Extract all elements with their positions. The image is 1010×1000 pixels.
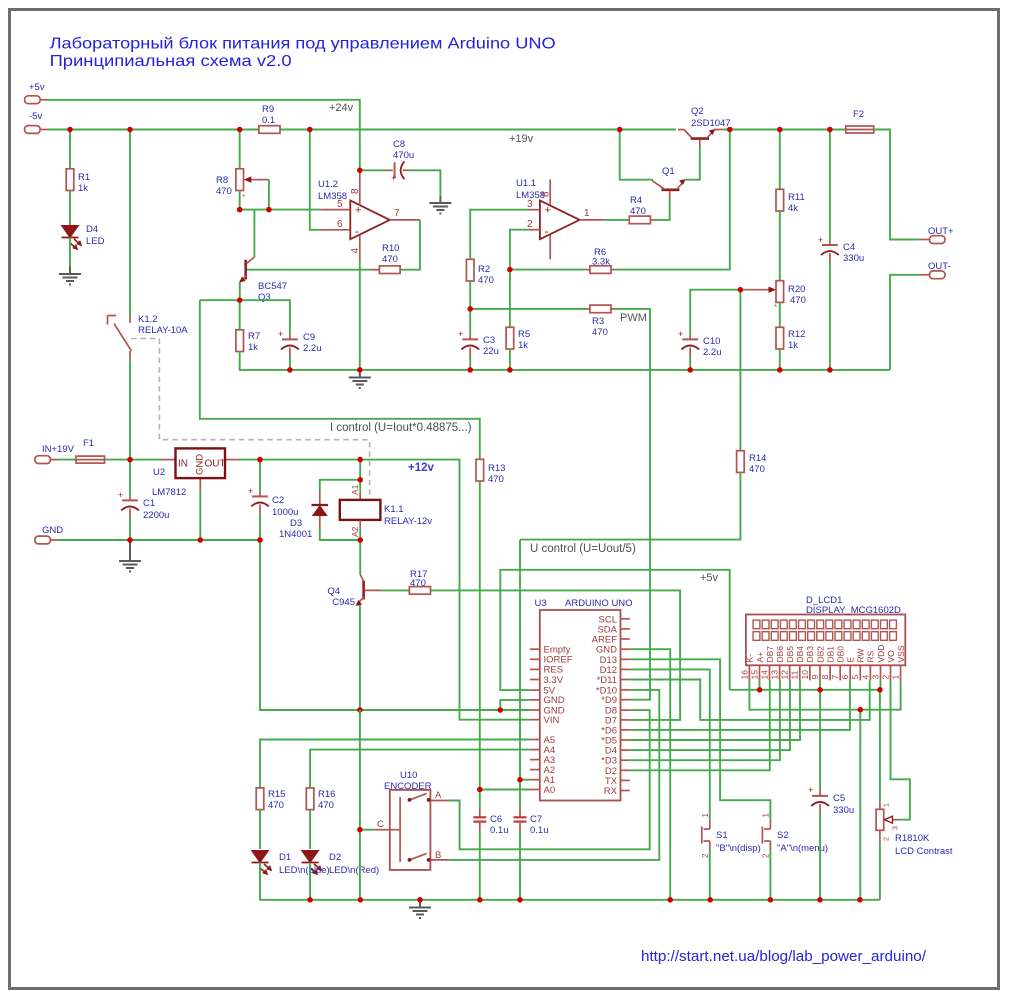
wire R1 top xyxy=(69,130,71,169)
svg-text:1: 1 xyxy=(701,813,710,818)
wire R20 wiper row to C10 xyxy=(690,290,745,335)
ground (C1) xyxy=(119,540,141,572)
wire row y309 to R3 xyxy=(470,308,586,310)
wire R11 to R20 xyxy=(779,211,781,281)
resistor R15 xyxy=(256,788,285,811)
wire GND1 jog xyxy=(500,700,530,710)
svg-text:LED\n(blue): LED\n(blue) xyxy=(279,865,330,876)
capacitor C1 xyxy=(118,460,169,521)
resistor R16 xyxy=(306,788,335,811)
svg-text:7: 7 xyxy=(830,675,840,680)
wire R8 wiper down xyxy=(268,180,270,210)
svg-text:2: 2 xyxy=(762,853,771,858)
svg-text:R10: R10 xyxy=(382,243,399,254)
wire C9 bottom xyxy=(289,357,291,370)
LED D4 xyxy=(62,224,105,249)
svg-text:+: + xyxy=(678,329,683,339)
wire Q4 base to R17 xyxy=(381,589,409,591)
wire D4 to LCD DB5 xyxy=(630,680,790,750)
svg-text:2.2u: 2.2u xyxy=(703,347,722,358)
svg-text:*: * xyxy=(774,303,777,312)
pin labels arduino left xyxy=(544,645,573,796)
wire Q3 emitter down xyxy=(239,283,241,301)
svg-text:R20: R20 xyxy=(788,284,805,295)
svg-text:470: 470 xyxy=(488,474,504,485)
svg-text:8: 8 xyxy=(820,675,830,680)
wire F2 to OUT+ xyxy=(874,130,919,240)
svg-text:470: 470 xyxy=(592,327,608,338)
wire S2 bottom xyxy=(769,851,771,900)
wire VDD column to R18 top xyxy=(879,690,881,801)
svg-text:LM358: LM358 xyxy=(318,191,347,202)
svg-text:3.3V: 3.3V xyxy=(544,675,564,686)
svg-text:6: 6 xyxy=(840,675,850,680)
wire C4 top xyxy=(829,130,831,243)
svg-text:U1.2: U1.2 xyxy=(318,179,338,190)
wire D4 to ground xyxy=(69,238,71,268)
svg-text:0.1u: 0.1u xyxy=(530,825,549,836)
svg-text:1000u: 1000u xyxy=(272,507,298,518)
wire 5V net xyxy=(500,570,729,690)
svg-text:F2: F2 xyxy=(853,109,864,120)
svg-text:R11: R11 xyxy=(788,192,805,203)
wire R14 bottom to U control row xyxy=(520,472,740,539)
svg-text:12: 12 xyxy=(780,670,790,680)
svg-text:ENCODER: ENCODER xyxy=(384,781,432,792)
wire D11 to LCD RS xyxy=(630,680,870,720)
svg-text:C: C xyxy=(377,819,384,830)
svg-text:2: 2 xyxy=(880,675,890,680)
wire R13 down to A0 then C6 xyxy=(479,481,481,808)
terminal OUT- xyxy=(919,261,951,279)
svg-text:PWM: PWM xyxy=(620,312,647,324)
svg-text:A1: A1 xyxy=(350,484,360,495)
wire R8 top xyxy=(239,130,241,169)
wire node row to opamp pin5 xyxy=(240,209,321,211)
svg-text:1N4001: 1N4001 xyxy=(279,529,312,540)
switch K1.2 contact xyxy=(108,314,189,359)
svg-text:0.1u: 0.1u xyxy=(490,825,509,836)
svg-text:+: + xyxy=(278,329,283,339)
junction dots bottom section xyxy=(307,687,882,903)
svg-text:C10: C10 xyxy=(703,336,720,347)
terminal GND xyxy=(35,525,63,544)
svg-text:A: A xyxy=(435,790,442,801)
wire R16 to D2 xyxy=(309,810,311,849)
wire R2 top to opamp U1.1 pin3 xyxy=(470,210,528,260)
svg-text:+: + xyxy=(355,205,361,217)
wire C8 left xyxy=(360,169,387,171)
svg-text:9: 9 xyxy=(810,675,820,680)
svg-text:DB2: DB2 xyxy=(815,646,825,663)
svg-text:1k: 1k xyxy=(78,183,88,194)
svg-text:K-: K- xyxy=(745,654,755,663)
svg-text:GND: GND xyxy=(42,525,63,536)
svg-text:-: - xyxy=(355,224,359,238)
svg-text:VDD: VDD xyxy=(876,645,886,663)
wire K1.2 bottom to +19v input rail xyxy=(129,359,131,460)
svg-text:IN+19V: IN+19V xyxy=(42,444,75,455)
svg-text:*D11: *D11 xyxy=(597,675,617,686)
svg-text:K1.1: K1.1 xyxy=(384,504,404,515)
capacitor C8 xyxy=(387,139,414,183)
svg-text:U10: U10 xyxy=(400,770,417,781)
svg-text:1k: 1k xyxy=(788,340,798,351)
regulator U2 LM7812 xyxy=(152,448,240,498)
wire VDD pin3 stub xyxy=(880,680,882,689)
resistor R13 xyxy=(476,459,505,485)
svg-text:4: 4 xyxy=(860,675,870,680)
svg-text:330u: 330u xyxy=(833,805,854,816)
wire D2 to LCD DB7 xyxy=(630,680,770,770)
capacitor C9 xyxy=(278,329,322,357)
wire R15 to D1 xyxy=(259,810,261,849)
wire D1 to rail xyxy=(260,863,880,900)
svg-text:F1: F1 xyxy=(83,438,94,449)
wire I-control vertical xyxy=(200,300,480,459)
svg-text:ARDUINO UNO: ARDUINO UNO xyxy=(565,598,633,609)
svg-text:6: 6 xyxy=(337,219,343,230)
svg-text:+: + xyxy=(458,329,463,339)
svg-text:Q3: Q3 xyxy=(258,292,271,303)
svg-text:C945: C945 xyxy=(332,597,355,608)
wire R5 bottom xyxy=(509,349,511,370)
svg-text:4: 4 xyxy=(350,248,361,254)
wire R7 bottom to gnd rail xyxy=(240,352,290,370)
wire VO to wiper jog xyxy=(891,680,910,819)
svg-text:2200u: 2200u xyxy=(143,510,169,521)
transistor Q2 2SD1047 xyxy=(678,106,731,147)
wire dashed mechanical link K1.2 to K1.1 xyxy=(131,339,370,499)
pin leads arduino left xyxy=(530,649,540,789)
resistor R14 xyxy=(737,451,767,475)
svg-text:DB3: DB3 xyxy=(805,646,815,663)
wire R4 right to Q1 base xyxy=(655,198,670,220)
resistor R7 xyxy=(236,330,260,353)
svg-text:2.2u: 2.2u xyxy=(303,343,322,354)
terminal OUT+ xyxy=(919,226,954,244)
terminal IN+19V xyxy=(35,444,75,464)
svg-text:U control (U=Uout/5): U control (U=Uout/5) xyxy=(530,543,636,555)
wire arduino right GND to bottom rail xyxy=(630,649,670,900)
svg-text:1: 1 xyxy=(584,208,590,219)
wire Q1 collector to rail xyxy=(620,130,653,180)
ground (D4) xyxy=(59,267,81,285)
wire LCD gnd drop RW xyxy=(859,710,861,900)
wire D12 to S1 xyxy=(630,669,710,819)
svg-text:Принципиальная схема v2.0: Принципиальная схема v2.0 xyxy=(50,53,292,70)
wire U1.2 feedback pin7 to R10 xyxy=(400,220,420,270)
svg-text:DB6: DB6 xyxy=(775,646,785,663)
wire D6 to LCD E xyxy=(630,680,850,730)
svg-text:DISPLAY_MCG1602D: DISPLAY_MCG1602D xyxy=(806,605,901,616)
encoder U10 xyxy=(374,770,449,870)
wire D10 to encoder B xyxy=(449,690,659,860)
svg-text:RELAY-10A: RELAY-10A xyxy=(138,325,188,336)
diode D3 1N4001 xyxy=(279,480,360,540)
svg-text:C3: C3 xyxy=(483,335,495,346)
svg-text:OUT: OUT xyxy=(205,459,226,470)
svg-text:+19v: +19v xyxy=(509,133,534,145)
wire R11 top xyxy=(779,130,781,190)
ic U3 ARDUINO UNO box xyxy=(535,598,633,801)
svg-text:470: 470 xyxy=(410,578,426,589)
svg-text:LED\n(Red): LED\n(Red) xyxy=(329,865,379,876)
junction dots top section xyxy=(67,127,833,373)
potentiometer R20 xyxy=(745,281,806,312)
svg-text:+: + xyxy=(818,235,823,245)
LED D1 xyxy=(252,851,272,875)
svg-text:*D9: *D9 xyxy=(601,695,617,706)
LED D2 xyxy=(302,851,321,875)
svg-text:Q4: Q4 xyxy=(327,586,340,597)
wire K1.1 A2 to Q4 collector xyxy=(359,540,361,575)
relay coil K1.1 xyxy=(340,460,433,540)
wire U2 OUT +12v rail xyxy=(240,460,530,720)
terminal +5v xyxy=(25,82,48,104)
wire Q1 emitter up to Q2 base xyxy=(685,147,700,180)
svg-text:*: * xyxy=(242,193,245,202)
svg-text:R8: R8 xyxy=(216,175,228,186)
svg-text:U2: U2 xyxy=(153,467,165,478)
svg-text:DB4: DB4 xyxy=(795,646,805,663)
wire row y300 xyxy=(200,300,290,335)
wire D2 to rail xyxy=(309,863,311,900)
svg-text:DB0: DB0 xyxy=(836,646,846,663)
svg-text:C4: C4 xyxy=(843,242,855,253)
svg-text:5: 5 xyxy=(850,675,860,680)
svg-text:330u: 330u xyxy=(843,253,864,264)
potentiometer R8 xyxy=(216,169,269,202)
ground (C8) xyxy=(429,196,451,214)
wire R17 right to D7 loop xyxy=(431,590,681,720)
svg-text:3.3k: 3.3k xyxy=(592,257,610,268)
wire R6 right up to rail xyxy=(615,130,730,270)
svg-text:R14: R14 xyxy=(749,453,766,464)
capacitor C2 xyxy=(248,460,298,518)
wire R7 top xyxy=(239,300,241,330)
svg-text:2SD1047: 2SD1047 xyxy=(691,118,731,129)
svg-text:C5: C5 xyxy=(833,793,845,804)
wire PWM loop R3 to D9 xyxy=(615,309,650,700)
svg-text:IN: IN xyxy=(178,459,188,470)
potentiometer R18 xyxy=(876,801,953,858)
wire C5 bottom xyxy=(819,812,821,900)
svg-text:VSS: VSS xyxy=(896,645,906,662)
capacitor C5 xyxy=(808,785,854,816)
resistor R6 xyxy=(586,247,615,273)
display pin leads xyxy=(749,665,900,680)
svg-text:11: 11 xyxy=(790,670,800,679)
svg-text:R9: R9 xyxy=(262,104,274,115)
resistor R3 xyxy=(586,305,615,338)
wire U2 gnd pin to gnd row xyxy=(199,490,201,540)
resistor R17 xyxy=(409,569,430,594)
svg-text:10: 10 xyxy=(800,670,810,680)
wire Q4 emitter down xyxy=(359,605,361,710)
svg-text:470: 470 xyxy=(630,206,646,217)
wire C7 bottom xyxy=(519,831,521,900)
svg-text:+: + xyxy=(248,486,253,496)
wire R1 to D4 xyxy=(69,191,71,225)
wire U1.1 pin2 loop xyxy=(510,230,529,270)
wire opamp U1.2 pin6 feed xyxy=(310,130,320,230)
svg-text:+5v: +5v xyxy=(29,82,45,93)
svg-text:+5v: +5v xyxy=(700,572,719,584)
svg-text:S1: S1 xyxy=(716,830,728,841)
switch S2 xyxy=(762,813,829,859)
svg-text:C2: C2 xyxy=(272,495,284,506)
svg-text:E: E xyxy=(846,657,856,663)
wire ground rail xyxy=(290,369,890,371)
svg-text:R2: R2 xyxy=(478,264,490,275)
svg-text:VO: VO xyxy=(886,650,896,663)
svg-text:2: 2 xyxy=(884,837,891,841)
wire A5 row to R15 xyxy=(260,740,530,788)
svg-text:C9: C9 xyxy=(303,332,315,343)
svg-text:R15: R15 xyxy=(268,789,285,800)
wire R20 to R12 xyxy=(779,302,781,327)
svg-text:C7: C7 xyxy=(530,814,542,825)
resistor R11 xyxy=(776,189,805,214)
resistor R4 xyxy=(629,195,655,224)
svg-text:1: 1 xyxy=(762,813,771,818)
wire A4 row to R16 xyxy=(310,750,530,788)
svg-text:RX: RX xyxy=(604,786,618,797)
wire C5 top from +5v row xyxy=(819,690,821,789)
svg-text:R7: R7 xyxy=(248,331,260,342)
svg-text:DB5: DB5 xyxy=(785,646,795,663)
resistor R9 xyxy=(259,104,280,133)
resistor R5 xyxy=(506,327,530,351)
svg-text:D2: D2 xyxy=(329,852,341,863)
switch S1 xyxy=(701,813,761,859)
wire S1 bottom xyxy=(709,851,711,900)
svg-text:0.1: 0.1 xyxy=(262,115,275,126)
svg-text:R3: R3 xyxy=(592,316,604,327)
svg-text:LM358: LM358 xyxy=(516,190,545,201)
wire A1 row xyxy=(520,779,530,781)
wire R12 bottom xyxy=(779,349,781,370)
display D_LCD1 MCG1602D box xyxy=(746,595,905,665)
svg-text:470: 470 xyxy=(216,186,232,197)
svg-text:3: 3 xyxy=(870,675,880,680)
svg-text:DB7: DB7 xyxy=(765,646,775,663)
svg-text:4k: 4k xyxy=(788,203,798,214)
svg-text:R16: R16 xyxy=(318,789,335,800)
wire rail right of Q2 xyxy=(722,129,845,131)
wire C4 bottom xyxy=(829,262,831,370)
svg-text:+: + xyxy=(545,205,551,217)
op-amp U1.1 xyxy=(516,178,604,259)
wire main +19v rail xyxy=(48,129,259,131)
capacitor C10 xyxy=(678,329,722,358)
wire OUT- to gnd rail xyxy=(890,275,919,370)
svg-text:470: 470 xyxy=(382,254,398,265)
svg-text:470: 470 xyxy=(268,800,284,811)
wire D8 to encoder A xyxy=(449,710,650,849)
svg-text:Лабораторный блок питания под: Лабораторный блок питания под управление… xyxy=(50,35,556,52)
svg-text:-5v: -5v xyxy=(29,111,42,122)
capacitor C7 xyxy=(514,808,549,836)
resistor R2 xyxy=(466,259,493,286)
svg-text:BC547: BC547 xyxy=(258,281,287,292)
wire R8 bottom xyxy=(239,191,241,210)
wire A0 row xyxy=(480,789,530,791)
wire F1 to U2 IN xyxy=(105,459,162,461)
wire DB2 pin9 stub xyxy=(819,680,821,689)
svg-text:470: 470 xyxy=(478,275,494,286)
svg-text:RS: RS xyxy=(866,650,876,662)
wire Q3 collector xyxy=(253,210,255,257)
svg-text:U1.1: U1.1 xyxy=(516,178,536,189)
svg-text:13: 13 xyxy=(770,670,780,680)
svg-text:R12: R12 xyxy=(788,329,805,340)
wire encoder C to gnd column xyxy=(359,710,361,900)
wire R18 bottom to rail end xyxy=(879,842,881,900)
svg-text:LM7812: LM7812 xyxy=(152,487,186,498)
fuse F2 xyxy=(846,109,874,133)
svg-text:+12v: +12v xyxy=(408,462,435,474)
wire D5 to LCD DB4 xyxy=(630,680,800,740)
wire C8 right to ground xyxy=(410,170,440,196)
svg-text:15: 15 xyxy=(749,670,759,680)
display character grid xyxy=(753,620,896,640)
ground (main rail) xyxy=(349,370,371,388)
pin labels arduino right xyxy=(592,614,618,797)
svg-text:K1.2: K1.2 xyxy=(138,314,158,325)
wire +24v net: top rail and drop xyxy=(48,100,360,171)
svg-text:-: - xyxy=(545,224,549,238)
capacitor C6 xyxy=(473,808,508,836)
wire R5 top xyxy=(509,270,511,328)
svg-text:Q2: Q2 xyxy=(691,106,704,117)
svg-text:C8: C8 xyxy=(393,139,405,150)
svg-text:DB1: DB1 xyxy=(825,646,835,663)
wire D3 to LCD DB6 xyxy=(630,680,780,760)
display pin names rotated xyxy=(745,645,906,663)
svg-text:"B"\n(disp): "B"\n(disp) xyxy=(716,843,761,854)
transistor Q1 xyxy=(652,166,686,198)
wire U control vertical to A1 and C7 xyxy=(519,540,521,808)
svg-text:RW: RW xyxy=(856,648,866,662)
svg-text:U3: U3 xyxy=(535,598,547,609)
display pin numbers rotated xyxy=(739,670,900,680)
wire encoder C lead xyxy=(360,829,374,831)
transistor Q4 C945 xyxy=(327,575,381,609)
svg-text:VIN: VIN xyxy=(544,715,560,726)
op-amp U1.2 xyxy=(318,170,420,259)
transistor Q3 BC547 xyxy=(239,257,287,303)
svg-text:Q1: Q1 xyxy=(662,166,675,177)
wire LCD gnd row2 xyxy=(749,680,900,709)
svg-text:LCD Contrast: LCD Contrast xyxy=(895,846,953,857)
svg-text:RELAY-12v: RELAY-12v xyxy=(384,516,432,527)
svg-text:470: 470 xyxy=(790,295,806,306)
wire C6 bottom xyxy=(479,831,481,900)
svg-text:16: 16 xyxy=(739,670,749,680)
wire D13 to S2 xyxy=(630,659,771,819)
svg-text:C1: C1 xyxy=(143,498,155,509)
wire R14 from R20 wiper node xyxy=(739,290,741,451)
wire C2 bottom xyxy=(259,514,261,540)
svg-text:R1810K: R1810K xyxy=(895,833,930,844)
wire K1.2 top xyxy=(129,130,131,317)
svg-text:+24v: +24v xyxy=(329,102,354,114)
svg-text:8: 8 xyxy=(350,188,361,194)
ground (bottom rail) xyxy=(409,900,431,918)
capacitor C3 xyxy=(458,309,499,357)
